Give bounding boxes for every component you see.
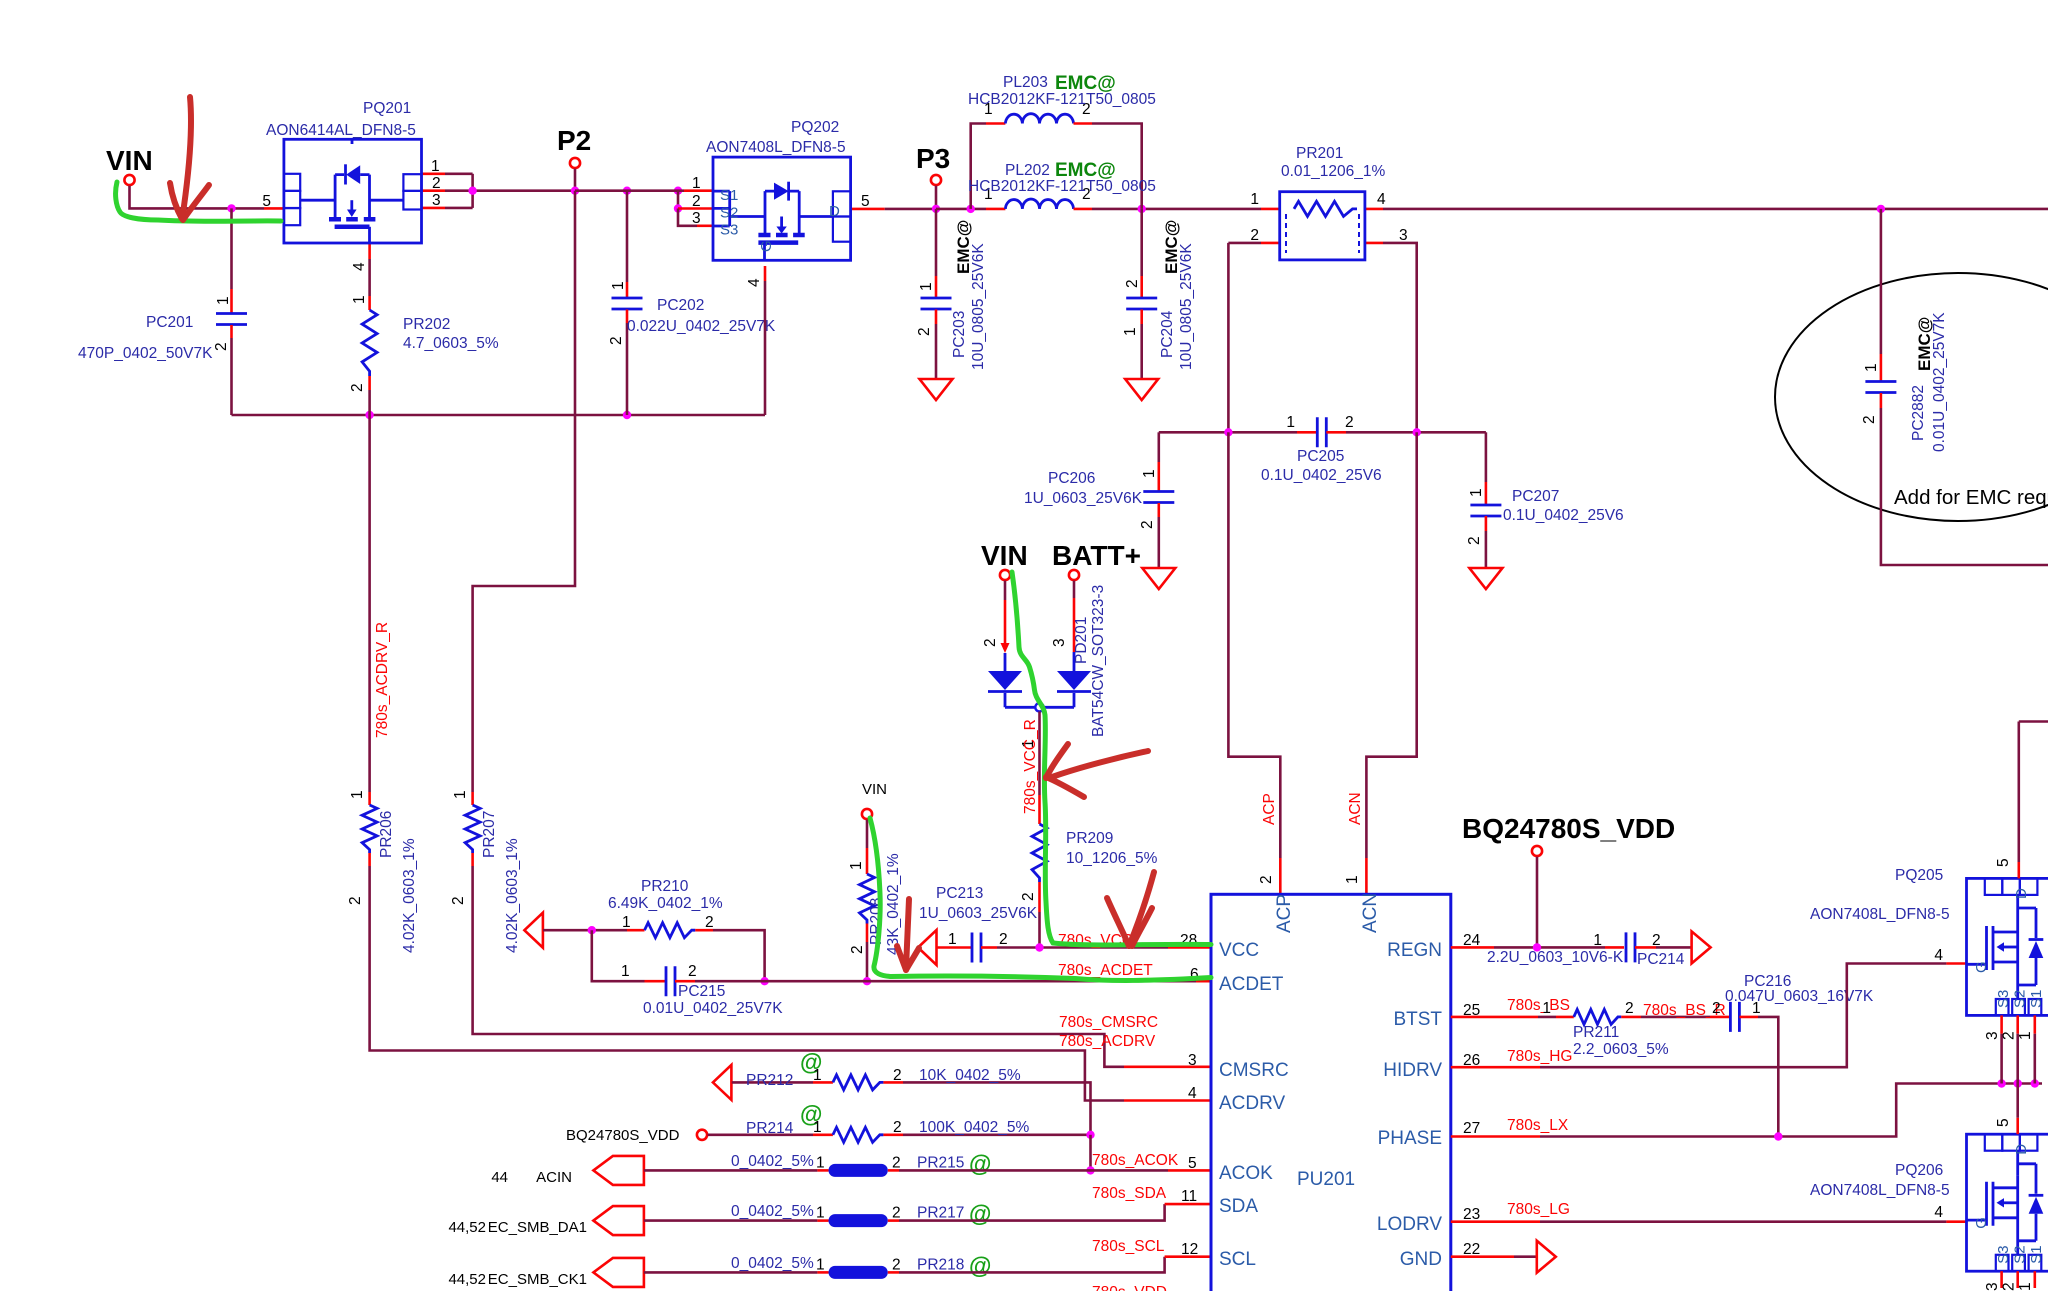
svg-text:GND: GND <box>1400 1249 1442 1270</box>
svg-text:@: @ <box>969 1201 991 1227</box>
svg-text:2: 2 <box>1345 414 1354 431</box>
svg-text:PC2882: PC2882 <box>1910 385 1927 441</box>
svg-text:1: 1 <box>1344 875 1361 884</box>
svg-text:PR217: PR217 <box>917 1205 964 1222</box>
svg-text:2: 2 <box>432 175 441 192</box>
svg-text:2: 2 <box>1861 415 1878 424</box>
svg-text:2: 2 <box>1712 1000 1721 1017</box>
svg-text:0_0402_5%: 0_0402_5% <box>731 1203 814 1220</box>
svg-text:S2: S2 <box>720 205 738 222</box>
svg-text:2: 2 <box>893 1119 902 1136</box>
svg-text:S2: S2 <box>2012 1245 2029 1263</box>
svg-text:6.49K_0402_1%: 6.49K_0402_1% <box>608 895 723 912</box>
svg-text:VIN: VIN <box>862 781 887 798</box>
svg-text:REGN: REGN <box>1387 940 1442 961</box>
svg-text:780s_ACOK: 780s_ACOK <box>1092 1152 1179 1169</box>
svg-text:PR210: PR210 <box>641 878 689 895</box>
svg-text:1: 1 <box>1542 1000 1551 1017</box>
svg-text:1: 1 <box>1141 469 1158 478</box>
svg-text:PC204: PC204 <box>1159 310 1176 358</box>
svg-text:1: 1 <box>813 1119 822 1136</box>
svg-text:11: 11 <box>1181 1188 1197 1205</box>
svg-text:1: 1 <box>1863 363 1880 372</box>
svg-text:PQ206: PQ206 <box>1895 1162 1943 1179</box>
svg-text:PC201: PC201 <box>146 314 193 331</box>
svg-text:PR214: PR214 <box>746 1120 794 1137</box>
svg-text:PR218: PR218 <box>917 1256 964 1273</box>
svg-text:ACP: ACP <box>1274 894 1295 933</box>
svg-text:44: 44 <box>491 1169 508 1186</box>
svg-text:HCB2012KF-121T50_0805: HCB2012KF-121T50_0805 <box>968 178 1156 195</box>
svg-text:2: 2 <box>608 336 625 345</box>
svg-text:780s_ACDRV: 780s_ACDRV <box>1059 1033 1156 1050</box>
svg-text:1: 1 <box>1593 932 1602 949</box>
svg-text:4.7_0603_5%: 4.7_0603_5% <box>403 335 499 352</box>
svg-text:P2: P2 <box>557 125 591 156</box>
svg-text:2: 2 <box>349 383 366 392</box>
svg-text:PR209: PR209 <box>1066 830 1113 847</box>
svg-text:10_1206_5%: 10_1206_5% <box>1066 850 1158 867</box>
svg-text:0.1U_0402_25V6: 0.1U_0402_25V6 <box>1503 507 1624 524</box>
svg-text:PC214: PC214 <box>1637 951 1685 968</box>
svg-text:2: 2 <box>1250 227 1259 244</box>
svg-text:P3: P3 <box>916 143 950 174</box>
svg-text:PD201: PD201 <box>1073 617 1090 664</box>
svg-text:2: 2 <box>1258 875 1275 884</box>
svg-text:3: 3 <box>1188 1052 1197 1069</box>
svg-text:PC215: PC215 <box>678 983 725 1000</box>
svg-text:PU201: PU201 <box>1297 1169 1355 1190</box>
svg-text:S3: S3 <box>1995 990 2012 1008</box>
svg-text:3: 3 <box>1984 1031 2001 1040</box>
svg-text:44,52: 44,52 <box>448 1271 486 1288</box>
svg-text:1: 1 <box>848 861 865 870</box>
svg-text:S2: S2 <box>2012 990 2029 1008</box>
svg-text:AON7408L_DFN8-5: AON7408L_DFN8-5 <box>1810 906 1950 923</box>
svg-text:PR212: PR212 <box>746 1072 793 1089</box>
svg-text:2: 2 <box>893 1067 902 1084</box>
svg-text:2: 2 <box>916 327 933 336</box>
svg-text:2: 2 <box>347 896 364 905</box>
svg-text:2: 2 <box>1625 1000 1634 1017</box>
svg-text:2: 2 <box>1652 932 1661 949</box>
svg-text:1: 1 <box>2017 1031 2034 1040</box>
svg-text:PC205: PC205 <box>1297 448 1344 465</box>
svg-text:0_0402_5%: 0_0402_5% <box>731 1255 814 1272</box>
svg-text:780s_SDA: 780s_SDA <box>1092 1185 1167 1202</box>
svg-text:1: 1 <box>452 790 469 799</box>
svg-text:5: 5 <box>1995 858 2012 867</box>
svg-text:2: 2 <box>1139 520 1156 529</box>
svg-text:2: 2 <box>2001 1031 2018 1040</box>
svg-text:PR202: PR202 <box>403 316 450 333</box>
svg-text:1: 1 <box>1468 488 1485 497</box>
svg-text:D: D <box>2013 1144 2030 1155</box>
svg-text:2: 2 <box>892 1256 901 1273</box>
svg-text:PR211: PR211 <box>1573 1024 1619 1041</box>
svg-text:@: @ <box>969 1252 991 1278</box>
svg-text:5: 5 <box>1188 1155 1197 1172</box>
svg-text:PR201: PR201 <box>1296 145 1343 162</box>
svg-text:0_0402_5%: 0_0402_5% <box>731 1153 814 1170</box>
svg-text:0.022U_0402_25V7K: 0.022U_0402_25V7K <box>627 318 776 335</box>
svg-text:10U_0805_25V6K: 10U_0805_25V6K <box>1178 243 1195 370</box>
svg-text:EC_SMB_CK1: EC_SMB_CK1 <box>488 1271 587 1288</box>
svg-text:3: 3 <box>1984 1282 2001 1291</box>
svg-text:1: 1 <box>621 963 630 980</box>
svg-text:1: 1 <box>816 1154 825 1171</box>
svg-text:1: 1 <box>816 1205 825 1222</box>
svg-text:3: 3 <box>1399 227 1408 244</box>
svg-text:1: 1 <box>215 296 232 305</box>
svg-text:2.2U_0603_10V6-K: 2.2U_0603_10V6-K <box>1487 949 1624 966</box>
svg-text:2: 2 <box>892 1205 901 1222</box>
svg-text:SDA: SDA <box>1219 1196 1258 1217</box>
svg-text:2: 2 <box>1466 536 1483 545</box>
svg-text:@: @ <box>969 1150 991 1176</box>
svg-text:4: 4 <box>1377 191 1386 208</box>
svg-text:G: G <box>1973 961 1990 973</box>
svg-text:PL203: PL203 <box>1003 74 1048 91</box>
svg-text:10K_0402_5%: 10K_0402_5% <box>919 1067 1021 1084</box>
svg-text:780s_LG: 780s_LG <box>1507 1201 1570 1218</box>
svg-text:PC203: PC203 <box>951 311 968 358</box>
svg-text:S1: S1 <box>2028 990 2045 1008</box>
svg-text:PC207: PC207 <box>1512 488 1559 505</box>
svg-text:4: 4 <box>351 262 368 271</box>
svg-text:0.01U_0402_25V7K: 0.01U_0402_25V7K <box>643 1000 783 1017</box>
svg-text:BQ24780S_VDD: BQ24780S_VDD <box>1462 813 1675 844</box>
svg-text:3: 3 <box>692 210 701 227</box>
svg-text:0.01U_0402_25V7K: 0.01U_0402_25V7K <box>1931 312 1948 452</box>
svg-text:LODRV: LODRV <box>1377 1214 1442 1235</box>
svg-text:2: 2 <box>688 963 697 980</box>
svg-text:PQ205: PQ205 <box>1895 867 1943 884</box>
svg-text:2: 2 <box>2001 1282 2018 1291</box>
svg-text:1: 1 <box>692 175 701 192</box>
svg-text:AON7408L_DFN8-5: AON7408L_DFN8-5 <box>706 139 846 156</box>
svg-text:4.02K_0603_1%: 4.02K_0603_1% <box>504 838 521 953</box>
svg-text:1: 1 <box>351 295 368 304</box>
svg-text:100K_0402_5%: 100K_0402_5% <box>919 1119 1030 1136</box>
svg-text:1: 1 <box>2017 1282 2034 1291</box>
svg-text:2: 2 <box>692 193 701 210</box>
svg-text:4: 4 <box>1934 947 1943 964</box>
svg-text:D: D <box>829 203 840 220</box>
svg-text:BQ24780S_VDD: BQ24780S_VDD <box>566 1127 680 1144</box>
svg-text:AON7408L_DFN8-5: AON7408L_DFN8-5 <box>1810 1182 1950 1199</box>
svg-text:PC206: PC206 <box>1048 470 1095 487</box>
svg-text:1U_0603_25V6K: 1U_0603_25V6K <box>919 905 1038 922</box>
svg-text:2: 2 <box>450 896 467 905</box>
svg-text:0.047U_0603_16V7K: 0.047U_0603_16V7K <box>1725 988 1874 1005</box>
svg-text:1: 1 <box>948 931 957 948</box>
svg-text:5: 5 <box>861 193 870 210</box>
svg-text:VIN: VIN <box>981 540 1028 571</box>
svg-text:0.01_1206_1%: 0.01_1206_1% <box>1281 163 1386 180</box>
svg-text:ACN: ACN <box>1360 893 1381 933</box>
svg-text:2: 2 <box>213 342 230 351</box>
svg-text:1: 1 <box>1286 414 1295 431</box>
svg-text:PR215: PR215 <box>917 1154 964 1171</box>
svg-text:780s_ACDRV_R: 780s_ACDRV_R <box>374 622 391 738</box>
svg-text:3: 3 <box>432 192 441 209</box>
svg-text:4: 4 <box>1188 1085 1197 1102</box>
svg-text:PC202: PC202 <box>657 297 704 314</box>
svg-text:2: 2 <box>849 945 866 954</box>
svg-text:D: D <box>2013 888 2030 899</box>
svg-text:1: 1 <box>1122 327 1139 336</box>
svg-text:S1: S1 <box>2028 1245 2045 1263</box>
svg-text:S1: S1 <box>720 187 738 204</box>
svg-text:BATT+: BATT+ <box>1052 540 1141 571</box>
svg-text:1: 1 <box>816 1256 825 1273</box>
svg-text:780s_LX: 780s_LX <box>1507 1117 1569 1134</box>
svg-text:VCC: VCC <box>1219 940 1259 961</box>
svg-text:AON6414AL_DFN8-5: AON6414AL_DFN8-5 <box>266 122 416 139</box>
svg-text:ACDRV: ACDRV <box>1219 1093 1285 1114</box>
svg-text:1: 1 <box>349 790 366 799</box>
svg-text:PQ201: PQ201 <box>363 100 411 117</box>
svg-text:4: 4 <box>1934 1204 1943 1221</box>
svg-text:ACP: ACP <box>1261 793 1278 825</box>
svg-text:780s_CMSRC: 780s_CMSRC <box>1059 1014 1158 1031</box>
svg-text:10U_0805_25V6K: 10U_0805_25V6K <box>970 243 987 370</box>
svg-text:43K_0402_1%: 43K_0402_1% <box>885 853 902 955</box>
svg-text:5: 5 <box>1995 1118 2012 1127</box>
svg-text:780s_VDD: 780s_VDD <box>1092 1284 1167 1291</box>
svg-text:1U_0603_25V6K: 1U_0603_25V6K <box>1024 490 1143 507</box>
svg-text:CMSRC: CMSRC <box>1219 1060 1289 1081</box>
svg-text:1: 1 <box>431 158 440 175</box>
svg-text:ACDET: ACDET <box>1219 974 1284 995</box>
svg-text:PC213: PC213 <box>936 885 983 902</box>
svg-text:27: 27 <box>1463 1120 1480 1137</box>
svg-text:2: 2 <box>982 638 999 647</box>
svg-text:PR206: PR206 <box>378 811 395 858</box>
svg-text:44,52: 44,52 <box>448 1219 486 1236</box>
svg-text:Add for EMC request: Add for EMC request <box>1894 486 2048 509</box>
svg-text:2: 2 <box>892 1154 901 1171</box>
svg-text:0.1U_0402_25V6: 0.1U_0402_25V6 <box>1261 467 1382 484</box>
svg-text:4: 4 <box>746 278 763 287</box>
svg-text:1: 1 <box>918 282 935 291</box>
svg-text:2: 2 <box>1020 892 1037 901</box>
svg-text:VIN: VIN <box>106 145 153 176</box>
svg-text:1: 1 <box>1250 191 1259 208</box>
svg-text:PR207: PR207 <box>481 811 498 858</box>
svg-text:PHASE: PHASE <box>1378 1128 1442 1149</box>
svg-text:G: G <box>758 240 775 252</box>
svg-text:780s_BS: 780s_BS <box>1507 997 1570 1014</box>
svg-text:780s_HG: 780s_HG <box>1507 1048 1572 1065</box>
svg-text:2.2_0603_5%: 2.2_0603_5% <box>1573 1041 1669 1058</box>
svg-text:PL202: PL202 <box>1005 162 1050 179</box>
svg-text:780s_VCC_R: 780s_VCC_R <box>1022 719 1039 814</box>
svg-text:2: 2 <box>999 931 1008 948</box>
svg-text:ACN: ACN <box>1347 792 1364 825</box>
svg-text:ACIN: ACIN <box>536 1169 572 1186</box>
svg-text:S3: S3 <box>720 222 738 239</box>
svg-text:12: 12 <box>1181 1241 1198 1258</box>
svg-text:470P_0402_50V7K: 470P_0402_50V7K <box>78 345 213 362</box>
svg-text:1: 1 <box>610 281 627 290</box>
svg-text:S3: S3 <box>1995 1245 2012 1263</box>
svg-text:2: 2 <box>1124 279 1141 288</box>
svg-text:1: 1 <box>813 1067 822 1084</box>
svg-text:ACOK: ACOK <box>1219 1163 1273 1184</box>
svg-text:HCB2012KF-121T50_0805: HCB2012KF-121T50_0805 <box>968 91 1156 108</box>
svg-text:3: 3 <box>1051 638 1068 647</box>
svg-text:BAT54CW_SOT323-3: BAT54CW_SOT323-3 <box>1090 585 1107 737</box>
svg-text:780s_SCL: 780s_SCL <box>1092 1238 1165 1255</box>
svg-text:EC_SMB_DA1: EC_SMB_DA1 <box>488 1219 587 1236</box>
svg-text:5: 5 <box>262 193 271 210</box>
svg-text:SCL: SCL <box>1219 1249 1256 1270</box>
svg-text:PQ202: PQ202 <box>791 119 839 136</box>
svg-text:HIDRV: HIDRV <box>1383 1060 1442 1081</box>
svg-text:BTST: BTST <box>1393 1009 1442 1030</box>
svg-text:4.02K_0603_1%: 4.02K_0603_1% <box>401 838 418 953</box>
svg-text:1: 1 <box>622 914 631 931</box>
svg-text:G: G <box>1973 1217 1990 1229</box>
svg-text:2: 2 <box>705 914 714 931</box>
